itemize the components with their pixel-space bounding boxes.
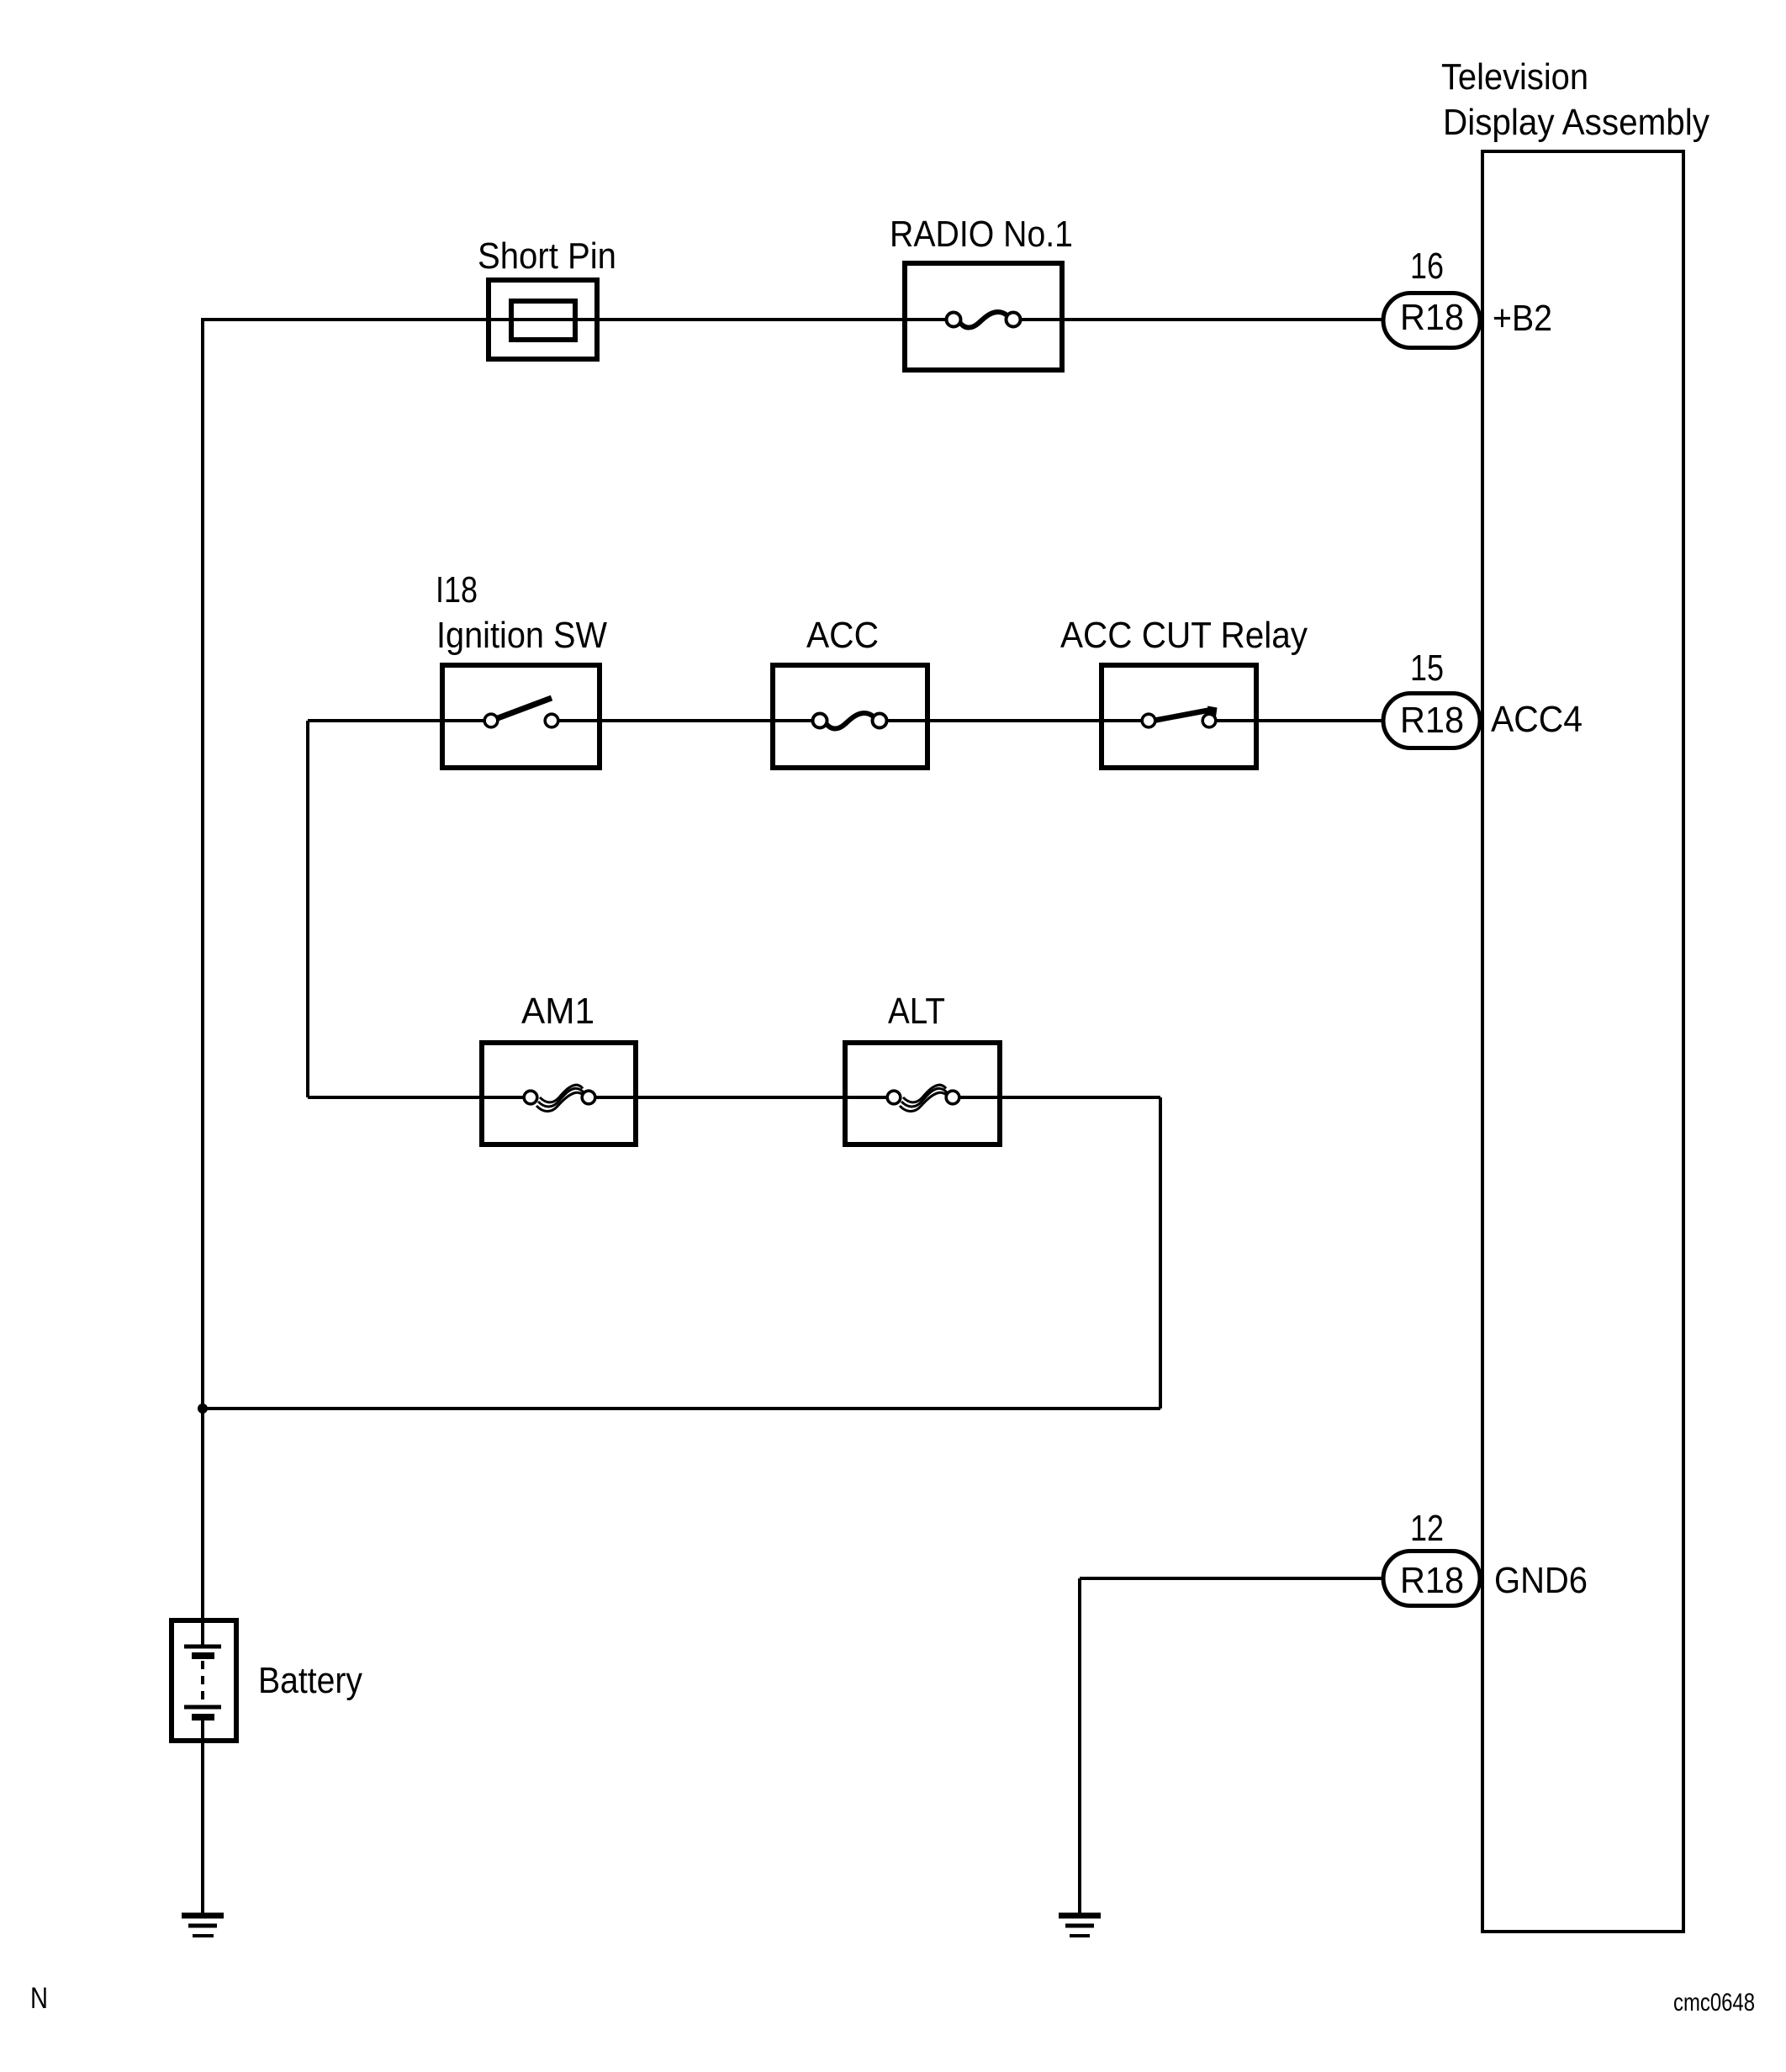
svg-text:+B2: +B2 <box>1493 299 1552 339</box>
svg-text:Ignition SW: Ignition SW <box>436 616 607 656</box>
svg-text:N: N <box>30 1982 48 2015</box>
svg-text:ACC4: ACC4 <box>1491 700 1583 740</box>
svg-text:Short Pin: Short Pin <box>478 236 616 277</box>
svg-text:ACC: ACC <box>806 616 879 656</box>
svg-text:R18: R18 <box>1400 700 1464 741</box>
svg-text:R18: R18 <box>1400 298 1464 338</box>
svg-text:R18: R18 <box>1400 1561 1464 1601</box>
svg-text:Display Assembly: Display Assembly <box>1443 103 1709 143</box>
svg-text:GND6: GND6 <box>1494 1561 1588 1601</box>
svg-text:ALT: ALT <box>888 991 945 1032</box>
svg-text:12: 12 <box>1410 1509 1444 1549</box>
svg-text:cmc0648: cmc0648 <box>1673 1989 1755 2016</box>
svg-text:Television: Television <box>1441 57 1588 98</box>
svg-text:RADIO No.1: RADIO No.1 <box>890 214 1073 255</box>
svg-text:I18: I18 <box>436 570 478 610</box>
svg-text:16: 16 <box>1410 246 1444 287</box>
svg-text:Battery: Battery <box>258 1661 362 1701</box>
svg-text:ACC CUT Relay: ACC CUT Relay <box>1060 616 1308 656</box>
svg-text:AM1: AM1 <box>521 991 594 1032</box>
svg-text:15: 15 <box>1410 648 1444 689</box>
